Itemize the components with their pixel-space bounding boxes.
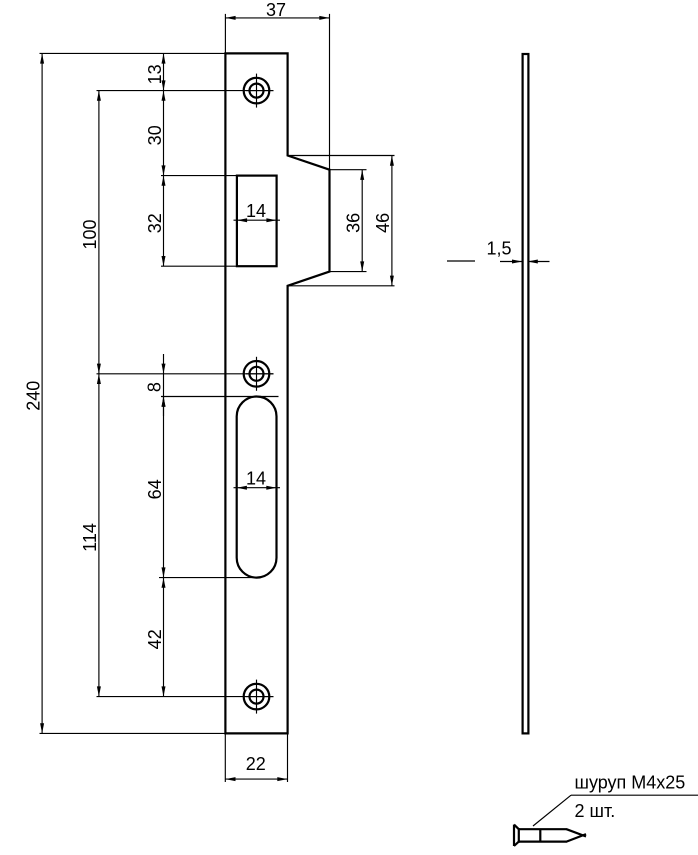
- svg-text:1,5: 1,5: [486, 238, 511, 258]
- svg-text:42: 42: [145, 629, 165, 649]
- svg-text:37: 37: [266, 0, 286, 20]
- svg-text:2 шт.: 2 шт.: [575, 801, 616, 821]
- screw hole top: [244, 74, 274, 108]
- extension line plate bottom edge: [40, 732, 227, 734]
- svg-text:46: 46: [373, 213, 393, 233]
- rectangular cutout 14x32: [237, 176, 277, 267]
- dimension 1,5 (outside arrows): [447, 238, 550, 263]
- svg-text:8: 8: [144, 382, 164, 392]
- svg-text:22: 22: [246, 754, 266, 774]
- dimension 42: [145, 578, 166, 697]
- svg-text:32: 32: [145, 213, 165, 233]
- extension line cutout bottom: [161, 265, 237, 267]
- dimension 64: [145, 397, 166, 578]
- extension line plate left edge (37 dim): [224, 14, 226, 54]
- extension line slot top: [161, 396, 279, 398]
- dimension 22: [225, 754, 287, 781]
- svg-text:13: 13: [145, 64, 165, 84]
- svg-text:240: 240: [23, 381, 43, 411]
- svg-text:114: 114: [80, 523, 100, 552]
- extension line lip straight bottom: [330, 271, 367, 273]
- dimension 100: [80, 91, 101, 374]
- extension line cutout top: [161, 175, 237, 177]
- svg-text:36: 36: [344, 213, 364, 233]
- extension line top hole centerline: [97, 90, 274, 92]
- dimension 8 (outside arrows): [144, 354, 165, 416]
- svg-text:шуруп M4x25: шуруп M4x25: [575, 773, 686, 793]
- plate outline front view: [225, 53, 329, 733]
- dimension 114: [80, 374, 101, 697]
- extension line bottom hole centerline: [97, 696, 274, 698]
- extension line plate top edge: [40, 52, 227, 54]
- svg-text:14: 14: [246, 468, 266, 488]
- extension line lip outer edge (37 dim): [329, 14, 331, 170]
- screw illustration: [514, 825, 586, 846]
- dimension 46: [373, 156, 394, 286]
- extension line lip bottom: [288, 285, 395, 287]
- screw hole bottom: [244, 680, 274, 714]
- side view thin plate: [523, 54, 529, 733]
- leader line to screw label: [533, 773, 698, 826]
- extension line middle hole centerline: [97, 373, 274, 375]
- dimension 36: [344, 170, 365, 272]
- screw hole middle: [244, 357, 274, 391]
- dimension 240: [23, 53, 44, 733]
- svg-text:64: 64: [145, 479, 165, 499]
- dimension 37: [225, 0, 329, 20]
- svg-text:100: 100: [80, 219, 100, 249]
- dimension 32: [145, 176, 166, 267]
- dimension 14 oval slot: [234, 468, 281, 489]
- svg-text:30: 30: [145, 125, 165, 145]
- extension line lip straight top: [330, 169, 367, 171]
- oval slot 14x64: [237, 397, 277, 578]
- extension line plate left edge (22 dim): [224, 733, 226, 782]
- extension line plate right edge (22 dim): [287, 733, 289, 782]
- dimension 14 rect cutout: [234, 201, 281, 222]
- svg-text:14: 14: [246, 201, 266, 221]
- extension line slot bottom: [159, 577, 260, 579]
- extension line lip top: [288, 155, 395, 157]
- dimension 13: [145, 53, 166, 90]
- dimension 30: [145, 91, 166, 176]
